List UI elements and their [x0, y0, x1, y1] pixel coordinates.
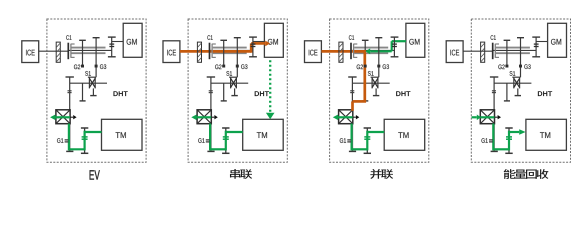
panel enclosure (PARALLEL)	[330, 19, 429, 162]
clutch C1 inner plate	[212, 44, 216, 58]
hollow shaft upper bar	[354, 47, 388, 49]
TM reduction shaft	[505, 128, 512, 153]
GM coupling gear	[249, 37, 257, 57]
black arrow differential output	[353, 115, 360, 119]
synchronizer S1	[512, 77, 521, 95]
node G3 (junction dot)	[377, 65, 380, 68]
green path lower link	[352, 148, 368, 150]
green path TM reduction shaft	[225, 131, 227, 151]
green gear mesh G1 marks	[506, 137, 512, 139]
clutch C1 outer plate	[67, 43, 69, 60]
synchronizer S1	[229, 77, 238, 95]
traction motor TM box	[102, 119, 143, 150]
label G3	[100, 64, 103, 69]
countershaft lower gear	[504, 83, 510, 101]
wire shaft to differential	[210, 77, 212, 111]
gear mesh marks at G1	[489, 140, 493, 142]
label S1	[510, 71, 513, 76]
generator GM box	[548, 23, 567, 57]
label G3	[524, 64, 527, 69]
label G1	[340, 138, 343, 143]
hollow shaft lower bar	[496, 52, 530, 54]
differential box with X	[339, 110, 353, 124]
label G1	[481, 138, 484, 143]
green power path: down coupling	[391, 41, 393, 51]
orange power path: ICE to main shaft	[180, 50, 251, 53]
green path final drive shaft	[492, 124, 494, 151]
label C1	[349, 35, 352, 40]
clutch C1 outer plate	[492, 43, 494, 60]
gear mesh marks at G1	[65, 140, 69, 142]
countershaft left gear	[490, 77, 498, 93]
gear G2 line	[504, 40, 511, 66]
wire shaft to differential	[69, 77, 71, 111]
orange power path: left toward final drive	[353, 100, 367, 103]
generator GM box	[264, 23, 283, 57]
wire main shaft centerline	[68, 49, 112, 51]
node G3 (junction dot)	[519, 65, 522, 68]
label G2	[74, 65, 77, 70]
differential box with X	[56, 110, 70, 124]
gear mesh marks at G1	[206, 140, 210, 142]
gear G3 line	[375, 38, 382, 77]
TM reduction shaft	[81, 128, 88, 153]
traction motor TM box	[243, 119, 284, 150]
green output arrow to wheels	[50, 115, 70, 121]
label DHT	[538, 91, 542, 96]
green path TM reduction shaft	[366, 131, 368, 151]
green dotted electric-energy arrow GM to TM	[266, 60, 275, 119]
clutch C1 outer plate	[209, 43, 211, 60]
countershaft lower gear	[80, 83, 86, 101]
torsional damper (hatched)	[197, 42, 201, 62]
generator GM box	[123, 23, 142, 57]
green path TM reduction shaft	[83, 131, 85, 151]
node G2 (junction dot)	[505, 65, 508, 68]
label DHT	[396, 91, 400, 96]
label S1	[226, 71, 229, 76]
label C1	[66, 35, 69, 40]
hollow shaft upper bar	[213, 47, 247, 49]
label C1	[207, 35, 210, 40]
traction motor TM box	[384, 119, 425, 150]
label G2	[498, 65, 501, 70]
synchronizer S1	[371, 77, 380, 95]
GM coupling gear	[532, 37, 540, 57]
panel enclosure (RECOVER)	[471, 19, 570, 162]
green arrow joining main shaft	[365, 48, 391, 54]
final drive shaft (below differential)	[207, 124, 214, 151]
orange power path: down gear G2 line	[363, 50, 366, 101]
green path lower link	[210, 148, 226, 150]
green path lower link	[69, 148, 85, 150]
wire ICE input shaft	[463, 50, 493, 52]
TM reduction shaft	[222, 128, 229, 153]
wire countershaft	[211, 82, 248, 84]
countershaft left gear	[66, 77, 74, 93]
countershaft lower gear	[221, 83, 227, 101]
label series mode (chuan lian)	[230, 169, 252, 179]
hollow shaft lower bar	[72, 52, 106, 54]
hollow shaft lower bar	[213, 52, 247, 54]
wire ICE input shaft	[321, 50, 351, 52]
differential box with X	[480, 110, 494, 124]
black arrow differential output	[211, 115, 218, 119]
node G2 (junction dot)	[222, 65, 225, 68]
green path final drive shaft	[209, 124, 211, 151]
GM coupling gear	[108, 37, 116, 57]
panel enclosure (SERIES)	[188, 19, 287, 162]
green link to TM	[367, 131, 384, 133]
GM coupling gear	[391, 37, 399, 57]
wire main shaft centerline	[209, 49, 253, 51]
hollow shaft upper bar	[72, 47, 106, 49]
engine ICE box	[446, 41, 463, 63]
generator GM box	[406, 23, 425, 57]
wire ICE input shaft	[39, 50, 68, 52]
wire main shaft centerline	[493, 49, 536, 51]
wire ICE input shaft	[180, 50, 210, 52]
hollow shaft upper bar	[496, 47, 530, 49]
wire countershaft	[352, 82, 389, 84]
final drive shaft (below differential)	[491, 124, 498, 151]
engine ICE box	[305, 41, 322, 63]
gear G3 line	[93, 38, 100, 77]
clutch C1 outer plate	[350, 43, 352, 60]
traction motor TM box	[526, 119, 567, 150]
orange arrow into GM	[251, 41, 270, 47]
green gear mesh G1 marks	[223, 137, 229, 139]
final drive shaft (below differential)	[66, 124, 73, 151]
node G3 (junction dot)	[236, 65, 239, 68]
label G2	[357, 65, 360, 70]
node G3 (junction dot)	[95, 65, 98, 68]
orange power path: down into differential	[351, 101, 354, 110]
green gear mesh G1 marks	[82, 137, 88, 139]
wire GM link	[253, 41, 265, 43]
label parallel mode (bing lian)	[370, 169, 393, 179]
gear G2 line	[220, 40, 227, 66]
countershaft lower gear	[362, 83, 368, 101]
wire shaft to differential	[493, 77, 495, 111]
green link to TM	[226, 131, 243, 133]
green output arrow to wheels	[333, 115, 353, 121]
label G2	[215, 65, 218, 70]
label S1	[85, 71, 88, 76]
hollow shaft lower bar	[354, 52, 388, 54]
wire main shaft centerline	[351, 49, 395, 51]
green path lower link	[493, 148, 509, 150]
label C1	[491, 35, 494, 40]
torsional damper (hatched)	[481, 42, 485, 62]
clutch C1 inner plate	[71, 44, 75, 58]
label EV mode	[90, 170, 100, 179]
wire shaft to differential	[351, 77, 353, 111]
label DHT	[255, 91, 259, 96]
green arrow into TM (recuperation)	[509, 129, 526, 135]
green output arrow to wheels	[191, 115, 211, 121]
orange power path: up to GM coupling	[250, 43, 253, 52]
wire countershaft	[494, 82, 531, 84]
TM reduction shaft	[364, 128, 371, 153]
green gear mesh G1 marks	[364, 137, 370, 139]
countershaft left gear	[207, 77, 215, 93]
final drive shaft (below differential)	[349, 124, 356, 151]
green path final drive shaft	[68, 124, 70, 151]
black arrow differential output	[495, 115, 502, 119]
wire GM link	[394, 41, 406, 43]
node G2 (junction dot)	[364, 65, 367, 68]
gear G2 line	[362, 40, 369, 66]
clutch C1 inner plate	[354, 44, 358, 58]
gear G3 line	[234, 38, 241, 77]
wire GM link	[536, 41, 548, 43]
label G1	[57, 138, 60, 143]
green path final drive shaft	[351, 124, 353, 151]
wire GM link	[112, 41, 124, 43]
orange power path: ICE along main shaft	[321, 50, 364, 53]
clutch C1 inner plate	[495, 44, 499, 58]
differential box with X	[197, 110, 211, 124]
label G1	[198, 138, 201, 143]
label energy recovery mode (neng liang hui shou)	[504, 169, 549, 179]
green link to TM	[85, 131, 102, 133]
panel enclosure (EV)	[47, 19, 146, 162]
engine ICE box	[22, 41, 39, 63]
synchronizer S1	[88, 77, 97, 95]
torsional damper (hatched)	[339, 42, 343, 62]
wire countershaft	[70, 82, 107, 84]
countershaft left gear	[348, 77, 356, 93]
gear G2 line	[79, 40, 86, 66]
green path TM reduction shaft	[508, 131, 510, 151]
green power path: GM output	[392, 40, 406, 42]
label S1	[368, 71, 371, 76]
black arrow differential output	[70, 115, 77, 119]
label G3	[241, 64, 244, 69]
gear mesh marks at G1	[347, 140, 351, 142]
engine ICE box	[163, 41, 180, 63]
gear G3 line	[517, 38, 524, 77]
label DHT	[113, 91, 117, 96]
torsional damper (hatched)	[56, 42, 60, 62]
node G2 (junction dot)	[81, 65, 84, 68]
label G3	[383, 64, 386, 69]
green recuperation arrow from wheels into differential	[472, 115, 495, 121]
